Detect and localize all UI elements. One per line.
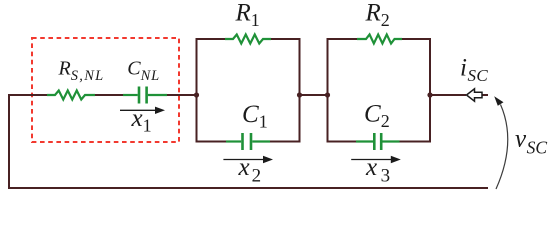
svg-text:iSC: iSC bbox=[460, 55, 488, 86]
svg-text:C1: C1 bbox=[242, 101, 268, 132]
svg-text:RS,NL: RS,NL bbox=[58, 58, 105, 85]
svg-text:x1: x1 bbox=[131, 105, 152, 136]
svg-text:R1: R1 bbox=[235, 0, 260, 30]
svg-text:C2: C2 bbox=[364, 101, 390, 132]
svg-text:R2: R2 bbox=[365, 0, 390, 30]
svg-text:vSC: vSC bbox=[515, 126, 547, 158]
svg-text:CNL: CNL bbox=[127, 58, 160, 85]
